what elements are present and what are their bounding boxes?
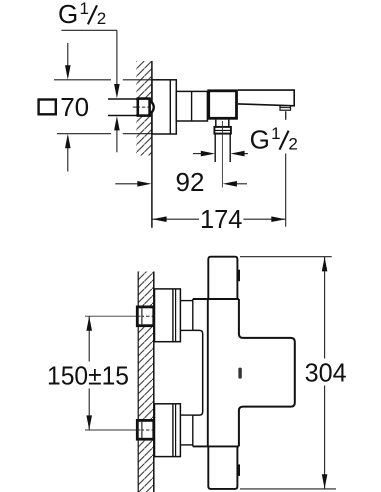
- svg-text:150±15: 150±15: [47, 361, 129, 391]
- svg-text:174: 174: [200, 204, 243, 234]
- svg-text:1: 1: [271, 124, 280, 143]
- svg-text:2: 2: [97, 9, 106, 28]
- svg-text:2: 2: [288, 134, 297, 153]
- svg-text:70: 70: [60, 92, 89, 122]
- svg-text:1: 1: [80, 0, 89, 18]
- svg-text:G: G: [58, 0, 78, 29]
- svg-text:304: 304: [305, 358, 347, 388]
- svg-text:G: G: [250, 125, 270, 155]
- svg-text:92: 92: [176, 167, 205, 197]
